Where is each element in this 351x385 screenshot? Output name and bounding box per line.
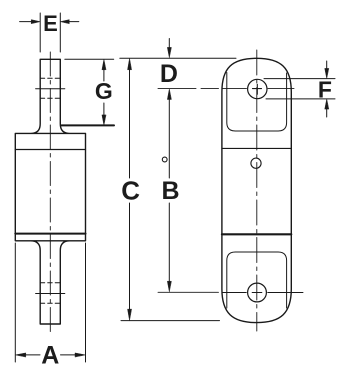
dimension G top extension line (65, 58, 114, 60)
svg-text:B: B (161, 177, 179, 205)
dimension A extension lines (15, 243, 85, 362)
right view middle block top line (222, 147, 291, 149)
svg-text:A: A (41, 342, 59, 370)
left view inner plate line top (15, 149, 85, 151)
dimension F top extension line (264, 78, 335, 80)
left view inner plate line bottom (15, 233, 85, 235)
dimension E extension lines (40, 13, 60, 52)
dimension C dimension line and arrows (129, 69, 131, 310)
dimension B dimension line and arrows (168, 99, 170, 282)
bottom hole center mark (252, 292, 262, 294)
right view bottom plate inner contour (227, 252, 287, 308)
svg-text:G: G (95, 78, 113, 104)
svg-text:C: C (121, 176, 140, 206)
top hole (248, 79, 267, 98)
bottom stem hidden hole lines (40, 283, 60, 304)
dimension G dimension line and arrows (103, 69, 105, 116)
reference mark small circle near B (162, 157, 167, 162)
dimension F bottom extension line (266, 98, 335, 100)
hole centerline / D-B extension line top (158, 88, 294, 90)
bottom hole (248, 283, 267, 302)
left view vertical centerline (49, 52, 51, 335)
right view outer contour (222, 58, 291, 322)
dimension G bottom extension line (62, 124, 115, 126)
dimension A dimension line and arrows (25, 354, 76, 356)
svg-text:D: D (160, 60, 178, 88)
middle small hole (251, 158, 261, 168)
top stem hidden hole lines (40, 78, 60, 98)
svg-text:F: F (318, 77, 332, 103)
svg-text:E: E (43, 11, 58, 36)
right view vertical centerline (256, 50, 258, 331)
right view top plate inner contour (227, 73, 287, 132)
dimension F arrows (326, 61, 328, 117)
dimension D leader above with down arrow (168, 39, 170, 49)
dimension C bottom extension line (121, 320, 220, 322)
dimension C top extension line (120, 57, 236, 59)
top hole center mark (253, 84, 262, 94)
bottom stem hole centerline (36, 293, 65, 295)
B bottom extension line / bottom hole centerline (158, 291, 303, 293)
top stem hole centerline (36, 88, 65, 90)
right view middle block bottom line (222, 233, 291, 235)
dimension E dimension line with outside arrows (20, 21, 79, 23)
left view outline (side view of link) (15, 59, 85, 324)
